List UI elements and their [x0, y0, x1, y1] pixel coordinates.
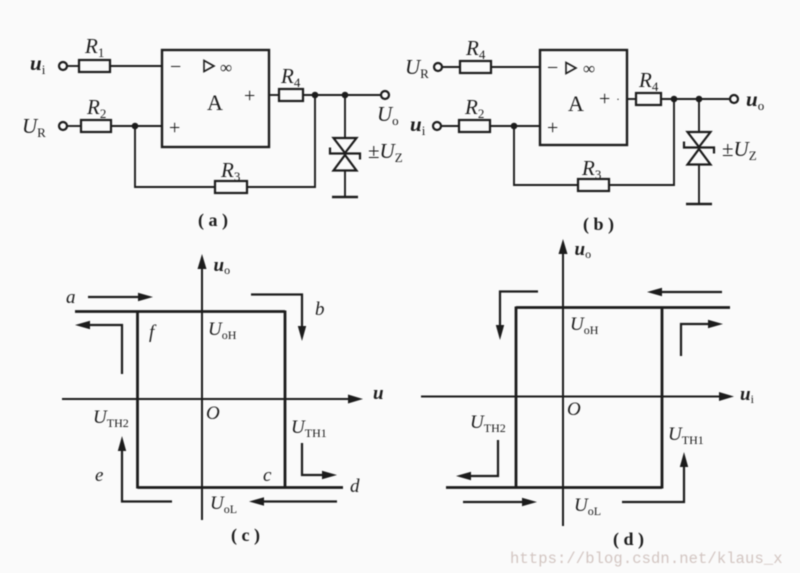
svg-text:UoH: UoH: [570, 314, 599, 337]
svg-text:A: A: [207, 90, 223, 115]
resistor R3 (b): [578, 156, 609, 191]
svg-text:O: O: [567, 399, 581, 420]
hysteresis loop left vertical (c): [136, 311, 139, 489]
u_i axis (d): [421, 392, 734, 401]
op-amp A (b): [540, 50, 627, 145]
svg-text:R2: R2: [464, 95, 484, 121]
resistor R4 output (b): [636, 68, 661, 105]
svg-text:+: +: [547, 117, 558, 139]
hysteresis loop left vertical (d): [515, 307, 518, 489]
svg-text:( c ): ( c ): [231, 525, 260, 546]
u axis (c): [62, 395, 363, 404]
svg-text:( a ): ( a ): [198, 210, 228, 231]
svg-text:R4: R4: [280, 64, 301, 90]
feedback wire output node down to R3 (b): [609, 99, 674, 185]
svg-text:b: b: [315, 299, 325, 320]
hysteresis loop bottom line (c): [138, 486, 344, 489]
svg-text:UTH1: UTH1: [291, 417, 327, 440]
svg-text:A: A: [568, 91, 584, 116]
svg-text:ui: ui: [410, 112, 426, 138]
trajectory hook b with down arrow: [251, 295, 306, 342]
wire R4 to op-amp inverting input (b): [491, 66, 540, 68]
wire R1 to op-amp inverting input: [110, 65, 162, 67]
output terminal u_o (b): [730, 95, 738, 103]
svg-text:∞: ∞: [220, 58, 232, 77]
zener diode pair ±UZ (a): [330, 138, 360, 171]
svg-text:a: a: [66, 287, 76, 308]
svg-text:( d ): ( d ): [613, 529, 644, 550]
input terminal u_i (b): [433, 122, 441, 130]
hysteresis loop top line (c): [75, 310, 285, 313]
svg-text:UoL: UoL: [210, 493, 237, 516]
wire terminal to R2 (b): [441, 125, 459, 127]
wire terminal to R4 (b): [442, 66, 460, 68]
bottom return arrow (d): [463, 498, 537, 506]
input terminal U_R (b): [434, 63, 442, 71]
svg-text:Uo: Uo: [377, 102, 399, 128]
ground (a): [332, 196, 358, 199]
svg-text:uo: uo: [746, 87, 764, 113]
wire terminal to R1: [67, 65, 79, 67]
trajectory hook f with left arrow: [75, 321, 122, 374]
hysteresis loop right vertical (d): [661, 307, 664, 489]
svg-text:ui: ui: [740, 384, 755, 406]
input terminal U_R (a): [59, 122, 67, 130]
svg-text:e: e: [95, 465, 103, 486]
feedback node (a): [312, 92, 319, 99]
wire R4 to output terminal (b): [661, 98, 730, 100]
svg-text:·: ·: [616, 92, 620, 106]
svg-text:R3: R3: [220, 158, 240, 184]
svg-text:UoH: UoH: [208, 319, 237, 342]
svg-text:−: −: [170, 56, 181, 78]
svg-text:+: +: [169, 117, 180, 139]
trajectory hook e with up arrow: [118, 436, 172, 502]
op-amp A (a): [162, 50, 269, 147]
wire node to zener (b): [698, 99, 700, 132]
svg-text:UTH2: UTH2: [470, 412, 506, 435]
svg-text:R3: R3: [581, 156, 601, 182]
resistor R1: [79, 34, 110, 72]
svg-text:R2: R2: [86, 95, 106, 121]
svg-text:d: d: [350, 476, 360, 497]
svg-text:f: f: [149, 322, 157, 343]
svg-text:https://blog.csdn.net/klaus_x: https://blog.csdn.net/klaus_x: [510, 550, 783, 568]
bottom-right hook with up arrow (d): [622, 452, 688, 502]
svg-text:+: +: [599, 88, 610, 110]
svg-text:UTH2: UTH2: [93, 407, 129, 430]
wire node to zener (a): [344, 95, 346, 138]
svg-text:±UZ: ±UZ: [722, 137, 757, 163]
zener branch node (b): [696, 96, 703, 103]
svg-text:u: u: [373, 383, 384, 404]
zener diode pair ±UZ (b): [684, 132, 714, 165]
wire op-amp output to R4: [269, 94, 279, 96]
resistor R2 (b): [459, 95, 490, 132]
wire op-amp output to R4 (b): [627, 98, 636, 100]
wire zener to ground (a): [344, 171, 346, 198]
top-left hook with down arrow (d): [496, 292, 538, 341]
svg-text:uo: uo: [214, 255, 231, 277]
svg-text:−: −: [547, 57, 558, 79]
zener branch node (a): [342, 92, 349, 99]
resistor R4 input (b): [460, 36, 491, 73]
wire R2 to op-amp non-inverting input (b): [490, 125, 540, 127]
svg-text:∞: ∞: [583, 59, 595, 78]
svg-text:R1: R1: [84, 34, 104, 60]
wire R2 to op-amp non-inverting input: [111, 125, 162, 127]
u_o axis (d): [559, 239, 568, 526]
ground (b): [686, 203, 712, 206]
output terminal U_o (a): [381, 91, 389, 99]
trajectory arrow a: [88, 293, 153, 301]
wire terminal to R2: [67, 125, 81, 127]
svg-text:R4: R4: [638, 68, 659, 94]
svg-text:UR: UR: [405, 55, 429, 81]
feedback wire output node down to R3: [247, 95, 315, 187]
svg-text:±UZ: ±UZ: [368, 139, 403, 165]
right hook with right arrow (d): [681, 320, 723, 356]
resistor R4 (a): [279, 64, 303, 101]
resistor R3 (a): [215, 158, 247, 193]
hysteresis loop top line (d): [516, 306, 730, 309]
svg-text:uo: uo: [575, 239, 592, 261]
input terminal u_i (a): [59, 62, 67, 70]
top return arrow (d): [647, 288, 722, 296]
wire zener to ground (b): [698, 165, 700, 205]
bottom-left hook with left arrow (d): [456, 440, 498, 480]
resistor R2: [81, 95, 111, 132]
bottom return arrow (c): [249, 497, 337, 505]
u_o axis (c): [198, 254, 207, 520]
svg-text:c: c: [263, 465, 272, 486]
junction node (b): [511, 123, 518, 130]
hysteresis loop right vertical (c): [284, 311, 287, 489]
svg-text:ui: ui: [30, 51, 46, 77]
feedback wire R3 to non-inverting node: [135, 126, 215, 187]
svg-text:UTH1: UTH1: [668, 424, 704, 447]
wire R4 to output terminal: [303, 94, 381, 96]
svg-text:UR: UR: [22, 114, 46, 140]
feedback wire R3 to non-inverting node (b): [514, 126, 578, 185]
svg-text:UoL: UoL: [574, 495, 601, 518]
svg-text:R4: R4: [465, 36, 486, 62]
junction node on non-inverting input (a): [132, 123, 139, 130]
hysteresis loop bottom line (d): [446, 486, 662, 489]
svg-text:+: +: [244, 85, 255, 107]
svg-text:O: O: [206, 403, 220, 424]
feedback node (b): [671, 96, 678, 103]
trajectory hook c-d with right arrow: [302, 443, 337, 479]
svg-text:( b ): ( b ): [583, 214, 614, 235]
